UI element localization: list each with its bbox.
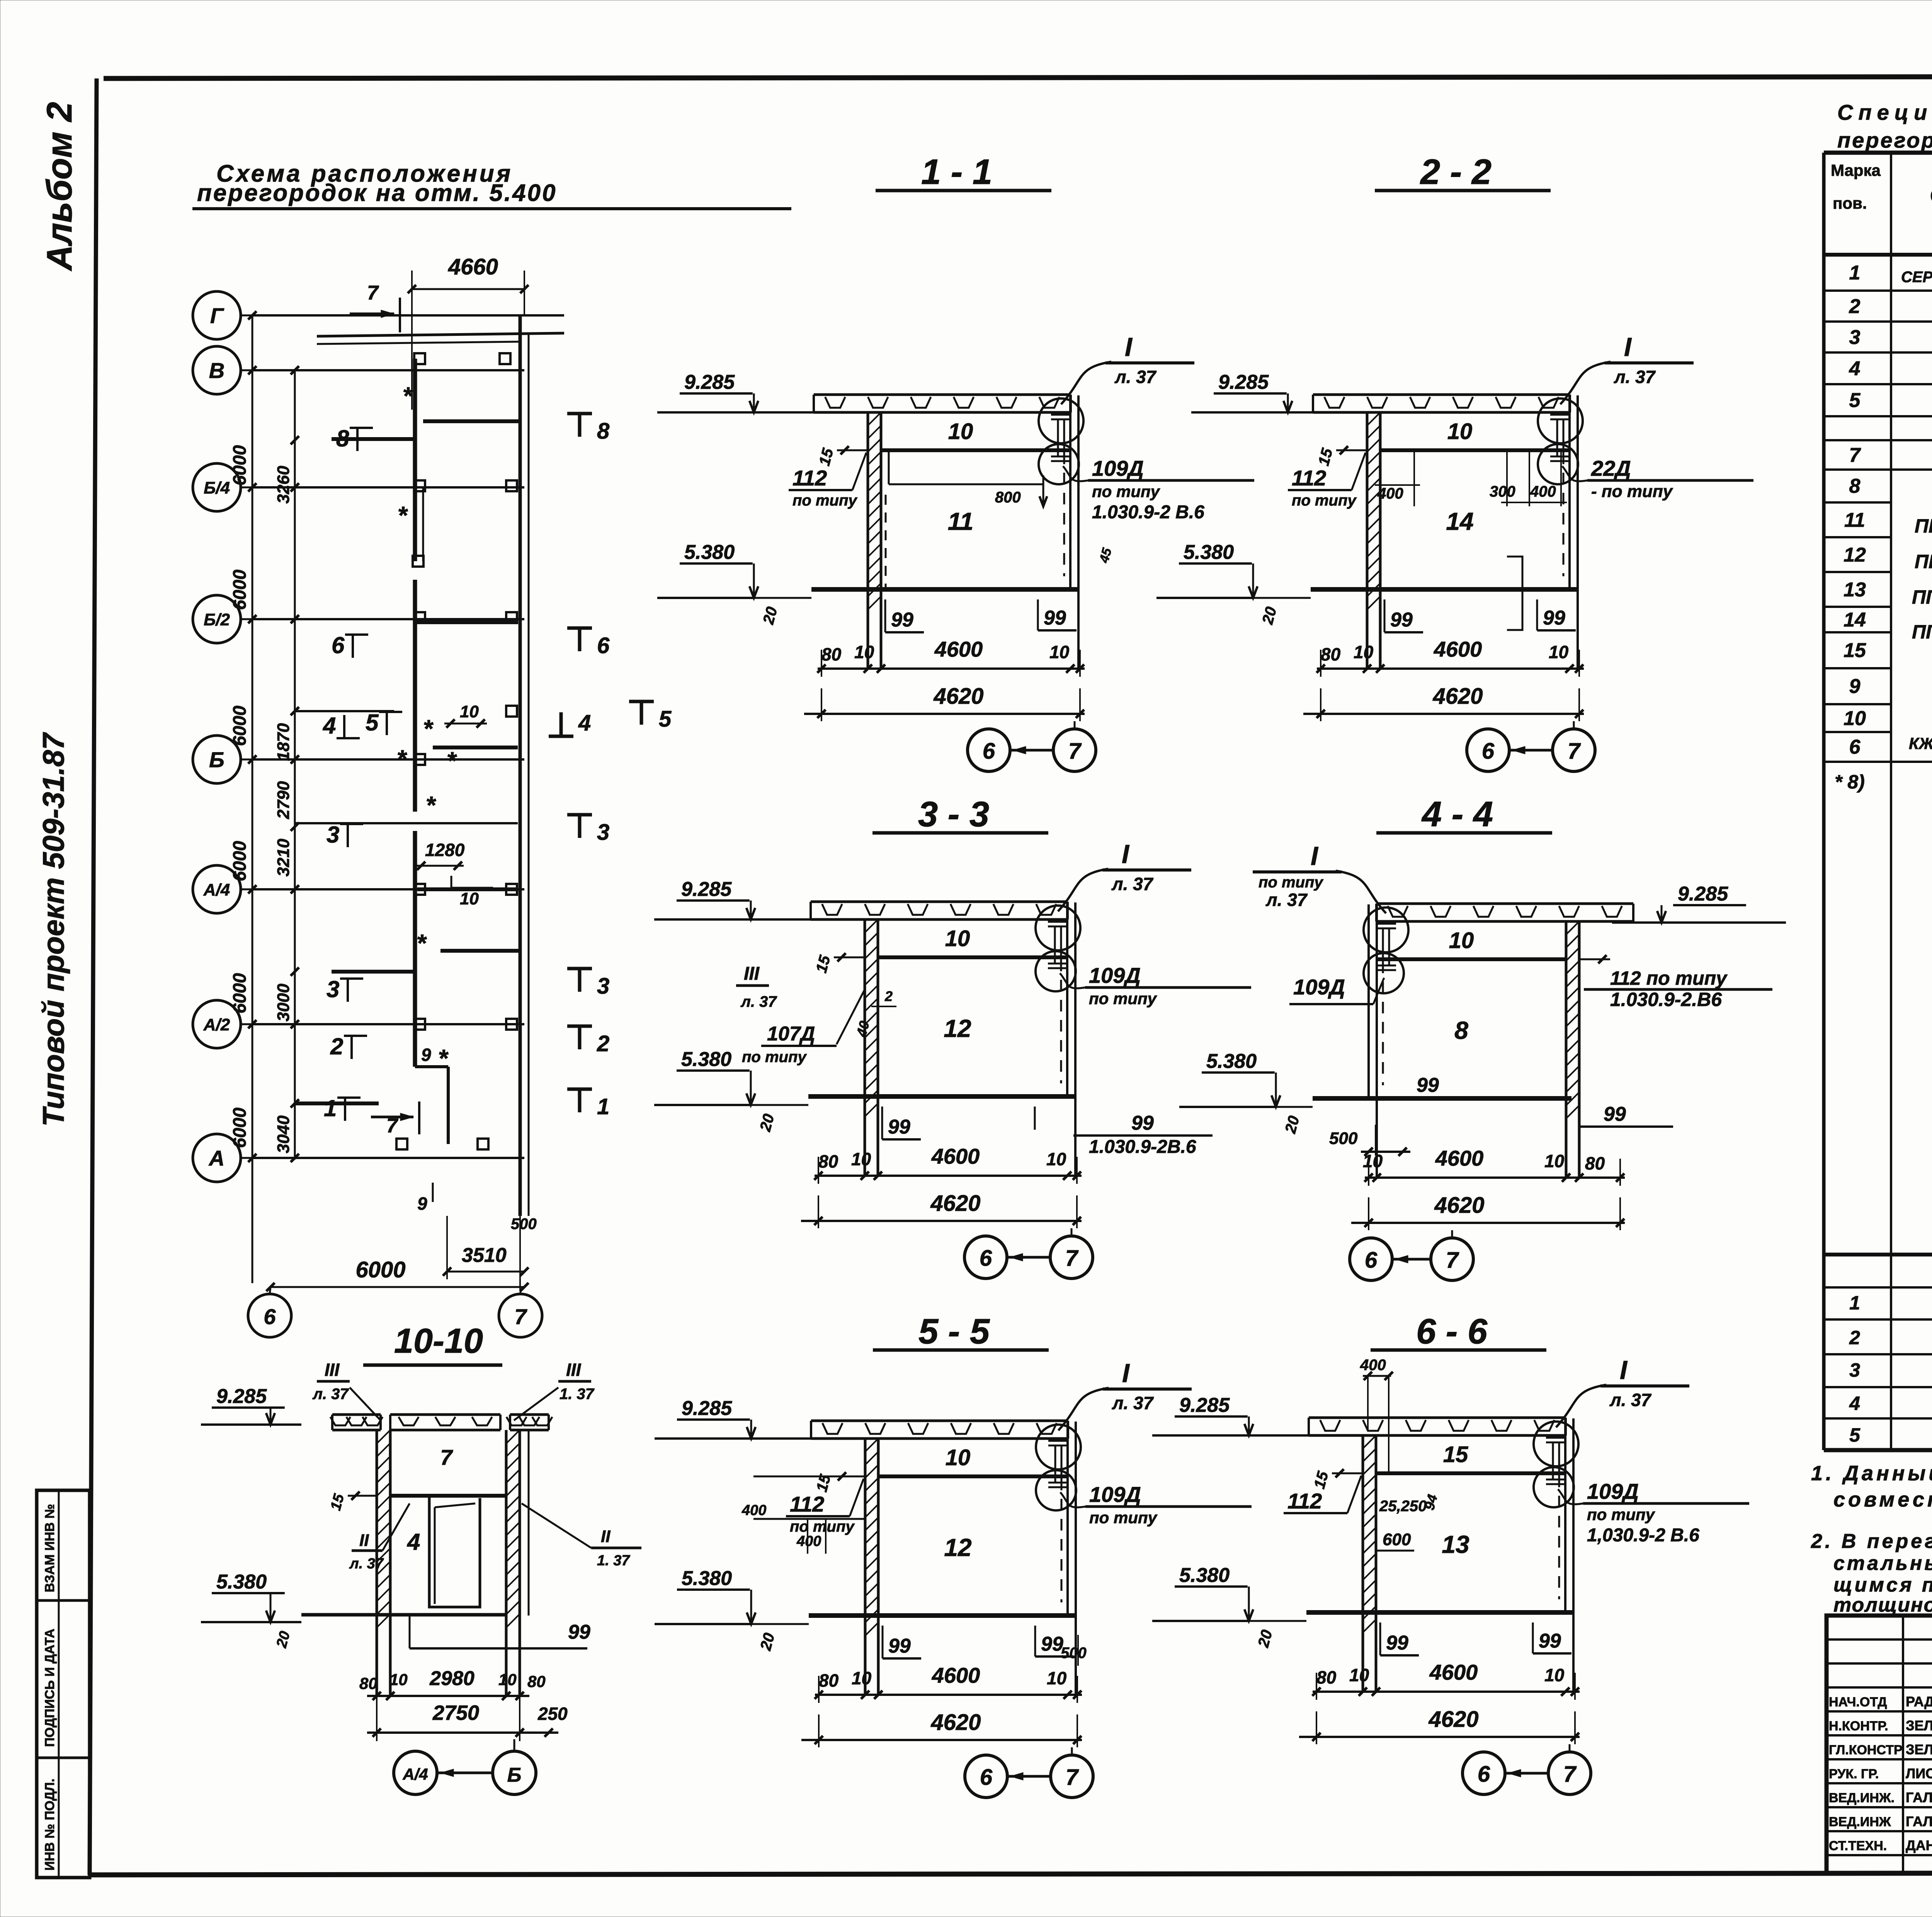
svg-text:9.285: 9.285 xyxy=(684,371,735,393)
svg-text:пов.: пов. xyxy=(1833,194,1867,212)
svg-text:8: 8 xyxy=(597,419,610,444)
svg-text:ПГ- 4, ПГ-5, ПГ-5-1,: ПГ- 4, ПГ-5, ПГ-5-1, xyxy=(1912,586,1932,608)
svg-text:6: 6 xyxy=(1849,736,1861,758)
svg-text:112: 112 xyxy=(1287,1489,1322,1513)
svg-text:10: 10 xyxy=(1844,707,1866,730)
svg-text:2. В перегородках, обозначенны: 2. В перегородках, обозначенных *, все xyxy=(1811,1530,1932,1553)
svg-text:99: 99 xyxy=(1386,1632,1408,1654)
svg-text:10: 10 xyxy=(1349,1665,1369,1685)
section cut mark 7 top xyxy=(350,282,400,332)
svg-text:III: III xyxy=(744,964,760,984)
svg-text:7: 7 xyxy=(1065,1246,1079,1271)
svg-text:5.380: 5.380 xyxy=(1179,1564,1230,1587)
plan 6000 dimension column xyxy=(229,315,252,1283)
svg-text:8: 8 xyxy=(336,426,349,451)
svg-text:8: 8 xyxy=(1454,1016,1468,1044)
svg-text:10: 10 xyxy=(1049,642,1070,662)
svg-text:12: 12 xyxy=(1844,544,1866,566)
svg-text:по типу: по типу xyxy=(1587,1505,1656,1524)
svg-text:по типу: по типу xyxy=(1089,989,1158,1008)
svg-text:9: 9 xyxy=(417,1193,427,1214)
svg-text:III: III xyxy=(566,1360,582,1380)
svg-text:2: 2 xyxy=(884,988,893,1004)
svg-text:99: 99 xyxy=(568,1621,590,1643)
svg-text:Б/4: Б/4 xyxy=(204,478,230,497)
svg-text:6: 6 xyxy=(264,1304,276,1329)
svg-text:10: 10 xyxy=(1447,419,1473,444)
svg-text:3: 3 xyxy=(597,974,609,999)
svg-text:80: 80 xyxy=(818,1151,838,1171)
plan axis circles 6 7 xyxy=(248,1287,542,1337)
section 10-10 xyxy=(201,1322,641,1794)
plan secondary dims xyxy=(274,366,299,1162)
svg-text:112: 112 xyxy=(790,1492,824,1516)
svg-text:А/4: А/4 xyxy=(402,1765,428,1783)
svg-text:4600: 4600 xyxy=(1434,637,1482,661)
svg-text:4600: 4600 xyxy=(931,1144,980,1168)
plan partition wall vertical xyxy=(415,359,423,1067)
svg-text:перегородок на отм. 5.400.: перегородок на отм. 5.400. xyxy=(1837,128,1932,152)
svg-text:10: 10 xyxy=(948,419,973,444)
svg-text:по типу: по типу xyxy=(1292,492,1357,509)
svg-text:I: I xyxy=(1620,1355,1628,1385)
plan marks 9 xyxy=(417,1045,433,1214)
section 3-3 xyxy=(654,795,1251,1279)
plan small dims 10 1280 xyxy=(415,702,493,908)
svg-text:6000: 6000 xyxy=(229,570,250,610)
svg-text:ВЗАМ ИНВ №: ВЗАМ ИНВ № xyxy=(43,1504,57,1592)
svg-text:4: 4 xyxy=(323,713,336,739)
svg-text:4620: 4620 xyxy=(1428,1707,1478,1732)
svg-text:л. 37: л. 37 xyxy=(1111,874,1154,894)
svg-text:10: 10 xyxy=(460,889,479,908)
svg-text:5.380: 5.380 xyxy=(1206,1050,1257,1073)
svg-text:9.285: 9.285 xyxy=(216,1385,267,1408)
svg-text:99: 99 xyxy=(1390,609,1413,631)
svg-text:по типу: по типу xyxy=(742,1049,807,1066)
section 5-5 xyxy=(655,1312,1252,1798)
svg-text:3: 3 xyxy=(327,976,339,1002)
svg-text:*: * xyxy=(403,382,413,410)
svg-text:4620: 4620 xyxy=(933,684,983,709)
svg-text:6: 6 xyxy=(1482,739,1495,764)
svg-text:6: 6 xyxy=(1478,1762,1490,1787)
svg-text:л. 37: л. 37 xyxy=(1114,367,1157,387)
svg-text:А/4: А/4 xyxy=(203,880,230,899)
svg-text:22Д: 22Д xyxy=(1591,456,1631,480)
svg-text:2750: 2750 xyxy=(432,1701,479,1725)
stamp boxes bottom-left xyxy=(37,1490,90,1878)
svg-text:5: 5 xyxy=(366,710,379,735)
svg-text:6 - 6: 6 - 6 xyxy=(1416,1312,1488,1351)
svg-text:ИНВ № ПОДЛ.: ИНВ № ПОДЛ. xyxy=(43,1779,57,1871)
svg-text:99: 99 xyxy=(1417,1074,1439,1096)
svg-text:7: 7 xyxy=(1849,444,1861,466)
svg-text:РУК. ГР.: РУК. ГР. xyxy=(1829,1767,1879,1781)
svg-text:80: 80 xyxy=(1316,1667,1337,1687)
svg-text:*: * xyxy=(447,747,457,775)
svg-text:по типу: по типу xyxy=(1092,482,1161,501)
svg-text:99: 99 xyxy=(891,609,913,631)
svg-text:25,250: 25,250 xyxy=(1379,1498,1427,1515)
svg-text:500: 500 xyxy=(1329,1129,1358,1148)
svg-text:ВЕД.ИНЖ: ВЕД.ИНЖ xyxy=(1829,1815,1891,1829)
svg-text:I: I xyxy=(1122,839,1130,869)
svg-text:ЛИСУНОВ: ЛИСУНОВ xyxy=(1906,1765,1932,1781)
svg-text:л. 37: л. 37 xyxy=(349,1556,384,1572)
svg-text:совместно с листом 37.: совместно с листом 37. xyxy=(1833,1488,1932,1511)
svg-text:Альбом 2: Альбом 2 xyxy=(40,102,79,271)
svg-text:4660: 4660 xyxy=(448,254,498,279)
svg-text:13: 13 xyxy=(1442,1531,1469,1558)
svg-text:112 по типу: 112 по типу xyxy=(1610,967,1728,989)
plan bottom dims xyxy=(266,1216,537,1291)
section 6-6 xyxy=(1152,1312,1749,1794)
svg-text:10: 10 xyxy=(389,1670,408,1689)
svg-text:80: 80 xyxy=(819,1670,839,1691)
svg-text:9.285: 9.285 xyxy=(1218,371,1269,393)
svg-text:ВЕД.ИНЖ.: ВЕД.ИНЖ. xyxy=(1829,1791,1895,1805)
svg-text:500: 500 xyxy=(511,1216,537,1233)
svg-text:99: 99 xyxy=(888,1635,911,1657)
svg-text:3040: 3040 xyxy=(274,1115,293,1153)
svg-text:ПГ-1 ÷ ПГ-1- 4,: ПГ-1 ÷ ПГ-1- 4, xyxy=(1915,515,1932,537)
plan stars xyxy=(397,382,457,1072)
svg-text:ЗЕЛЕНСКИЙ: ЗЕЛЕНСКИЙ xyxy=(1906,1717,1932,1733)
svg-text:Марка: Марка xyxy=(1831,161,1881,179)
svg-text:1.030.9-2 В.6: 1.030.9-2 В.6 xyxy=(1092,502,1204,523)
svg-text:10: 10 xyxy=(946,1445,971,1470)
svg-text:80: 80 xyxy=(1585,1153,1605,1173)
svg-text:7: 7 xyxy=(1068,739,1082,764)
svg-text:107Д: 107Д xyxy=(767,1023,815,1045)
svg-text:7: 7 xyxy=(514,1304,527,1329)
svg-text:щимся покрытием ВПМ-2 (ГОСТ: щимся покрытием ВПМ-2 (ГОСТ 25131-82) xyxy=(1833,1574,1932,1596)
svg-text:99: 99 xyxy=(1539,1630,1561,1652)
svg-text:400: 400 xyxy=(1530,483,1556,500)
svg-text:9: 9 xyxy=(1849,675,1861,698)
svg-text:4620: 4620 xyxy=(930,1191,980,1216)
svg-text:4620: 4620 xyxy=(1432,684,1483,709)
svg-text:6000: 6000 xyxy=(355,1257,405,1282)
svg-text:Г: Г xyxy=(210,303,224,328)
svg-text:Б: Б xyxy=(507,1764,522,1786)
svg-text:9.285: 9.285 xyxy=(1179,1394,1230,1416)
svg-text:1: 1 xyxy=(324,1095,337,1121)
svg-text:1: 1 xyxy=(1849,1292,1860,1314)
svg-text:2: 2 xyxy=(597,1031,609,1056)
svg-text:11: 11 xyxy=(948,507,973,535)
svg-text:400: 400 xyxy=(1377,485,1403,502)
svg-text:4: 4 xyxy=(1849,358,1861,380)
svg-text:6: 6 xyxy=(332,632,345,658)
svg-text:10: 10 xyxy=(1354,642,1374,662)
svg-text:4: 4 xyxy=(578,710,591,735)
svg-text:Типовой проект 509-31.87: Типовой проект 509-31.87 xyxy=(36,732,70,1127)
svg-text:*: * xyxy=(423,715,434,742)
svg-text:ГАЛАКТИОНОВА: ГАЛАКТИОНОВА xyxy=(1906,1813,1932,1829)
svg-text:5.380: 5.380 xyxy=(684,541,735,564)
svg-text:1. Данный лист рассматривать: 1. Данный лист рассматривать xyxy=(1811,1462,1932,1485)
svg-text:ДАНИЛОВА: ДАНИЛОВА xyxy=(1906,1837,1932,1853)
svg-text:99: 99 xyxy=(1543,607,1565,629)
svg-text:ГЛ.КОНСТР: ГЛ.КОНСТР xyxy=(1829,1743,1903,1757)
svg-text:КЖИ-: КЖИ- xyxy=(1909,734,1932,752)
svg-text:2: 2 xyxy=(330,1033,343,1059)
margin text project number xyxy=(36,732,70,1127)
svg-text:*: * xyxy=(398,501,408,529)
svg-text:1870: 1870 xyxy=(274,723,293,761)
svg-text:2980: 2980 xyxy=(429,1667,474,1690)
svg-text:6000: 6000 xyxy=(229,841,250,882)
svg-text:ПОДПИСЬ И ДАТА: ПОДПИСЬ И ДАТА xyxy=(43,1629,57,1747)
svg-text:л. 37: л. 37 xyxy=(1112,1393,1154,1413)
svg-text:4620: 4620 xyxy=(1434,1193,1484,1218)
plan top wall xyxy=(317,333,564,344)
svg-text:ПГ-3 ÷ ПГ-3-4,: ПГ-3 ÷ ПГ-3-4, xyxy=(1915,551,1932,572)
plan column squares xyxy=(396,353,517,1149)
svg-text:А/2: А/2 xyxy=(203,1015,230,1034)
svg-text:112: 112 xyxy=(1292,466,1326,490)
spec table data xyxy=(1835,262,1932,1446)
spec table heading text xyxy=(1837,100,1932,152)
notes text xyxy=(1811,1462,1932,1616)
svg-text:5 - 5: 5 - 5 xyxy=(918,1312,990,1351)
svg-text:109Д: 109Д xyxy=(1587,1479,1639,1503)
svg-text:СЕРИЯ 1.030.9 -2 вып.1: СЕРИЯ 1.030.9 -2 вып.1 xyxy=(1901,269,1932,286)
svg-text:9.285: 9.285 xyxy=(682,1397,732,1420)
svg-text:80: 80 xyxy=(359,1674,378,1692)
svg-text:6: 6 xyxy=(597,633,610,658)
svg-text:1. 37: 1. 37 xyxy=(560,1386,595,1403)
svg-text:7: 7 xyxy=(1563,1762,1577,1787)
svg-text:III: III xyxy=(325,1360,340,1380)
svg-text:толщиной - 4 мм.: толщиной - 4 мм. xyxy=(1833,1594,1932,1616)
svg-text:ГАЛАКТИОНОВА: ГАЛАКТИОНОВА xyxy=(1906,1789,1932,1805)
svg-text:6000: 6000 xyxy=(229,445,250,486)
svg-text:4600: 4600 xyxy=(1435,1146,1484,1170)
svg-text:109Д: 109Д xyxy=(1089,963,1141,987)
svg-text:10: 10 xyxy=(851,1149,871,1169)
svg-text:109Д: 109Д xyxy=(1092,456,1144,480)
svg-text:4600: 4600 xyxy=(934,637,983,661)
svg-text:*: * xyxy=(426,791,437,819)
svg-text:6: 6 xyxy=(980,1246,992,1271)
svg-text:8: 8 xyxy=(1849,475,1861,497)
svg-text:99: 99 xyxy=(1044,607,1066,629)
svg-text:6000: 6000 xyxy=(229,706,250,746)
svg-text:10-10: 10-10 xyxy=(394,1322,483,1360)
svg-text:1.030.9-2.В6: 1.030.9-2.В6 xyxy=(1610,989,1722,1010)
section 4-4 xyxy=(1179,795,1786,1280)
svg-text:3210: 3210 xyxy=(274,839,293,877)
svg-text:1: 1 xyxy=(1849,262,1861,284)
svg-text:9: 9 xyxy=(421,1045,431,1065)
svg-text:1280: 1280 xyxy=(425,840,465,860)
svg-text:I: I xyxy=(1311,841,1319,871)
svg-text:99: 99 xyxy=(1604,1103,1626,1125)
svg-text:А: А xyxy=(208,1146,224,1170)
svg-text:I: I xyxy=(1125,332,1133,362)
svg-text:1: 1 xyxy=(597,1094,609,1119)
svg-text:99: 99 xyxy=(1041,1633,1063,1655)
plan partitions xyxy=(295,421,520,1144)
svg-text:л. 37: л. 37 xyxy=(1614,367,1656,387)
svg-text:500: 500 xyxy=(1061,1645,1087,1662)
svg-text:5: 5 xyxy=(1849,389,1861,412)
svg-text:7: 7 xyxy=(1446,1248,1459,1273)
svg-text:3510: 3510 xyxy=(462,1244,507,1267)
svg-text:99: 99 xyxy=(888,1116,910,1138)
svg-text:10: 10 xyxy=(945,926,970,951)
svg-text:7: 7 xyxy=(1066,1765,1079,1790)
svg-text:600: 600 xyxy=(1383,1530,1411,1549)
svg-text:5.380: 5.380 xyxy=(682,1567,732,1590)
svg-text:80: 80 xyxy=(1321,644,1341,664)
svg-text:5: 5 xyxy=(1849,1424,1861,1446)
svg-text:7: 7 xyxy=(1568,739,1581,764)
svg-text:2 - 2: 2 - 2 xyxy=(1420,152,1492,192)
svg-text:II: II xyxy=(601,1527,611,1546)
svg-text:80: 80 xyxy=(527,1672,546,1691)
svg-text:Обозначение: Обозначение xyxy=(1930,185,1932,208)
svg-text:Б/2: Б/2 xyxy=(204,610,230,629)
svg-text:3: 3 xyxy=(327,822,339,848)
svg-text:300: 300 xyxy=(1490,483,1515,500)
svg-text:по типу: по типу xyxy=(790,1518,855,1535)
svg-text:14: 14 xyxy=(1446,507,1473,535)
plan grid circles and lines xyxy=(193,291,564,1182)
svg-text:6: 6 xyxy=(1365,1248,1378,1273)
svg-text:* 8): * 8) xyxy=(1835,771,1865,793)
svg-text:1,030.9-2 В.6: 1,030.9-2 В.6 xyxy=(1587,1525,1699,1546)
svg-text:6000: 6000 xyxy=(229,973,250,1014)
plan type marks right side xyxy=(549,414,672,1119)
svg-text:5.380: 5.380 xyxy=(681,1048,731,1071)
svg-text:1 - 1: 1 - 1 xyxy=(921,152,992,192)
svg-text:4: 4 xyxy=(1849,1393,1860,1414)
svg-text:13: 13 xyxy=(1844,579,1866,601)
section cut mark 7 bottom xyxy=(371,1102,419,1137)
svg-text:10: 10 xyxy=(1047,1668,1067,1688)
svg-text:4620: 4620 xyxy=(930,1710,981,1735)
svg-text:7: 7 xyxy=(440,1445,453,1469)
svg-text:10: 10 xyxy=(498,1670,517,1689)
svg-text:15: 15 xyxy=(1443,1442,1468,1467)
svg-text:10: 10 xyxy=(1046,1149,1066,1169)
svg-text:2: 2 xyxy=(1849,1327,1860,1348)
svg-text:л. 37: л. 37 xyxy=(1265,890,1308,910)
svg-text:РАДЬКО: РАДЬКО xyxy=(1906,1694,1932,1709)
spec table headers xyxy=(1831,157,1932,245)
svg-text:*: * xyxy=(397,745,408,773)
svg-text:по типу: по типу xyxy=(1259,874,1323,891)
svg-text:10: 10 xyxy=(1544,1665,1565,1685)
svg-text:5: 5 xyxy=(659,707,672,732)
title block xyxy=(1827,1616,1932,1873)
margin text Album 2 xyxy=(40,102,79,271)
svg-text:5.380: 5.380 xyxy=(1184,541,1234,564)
svg-text:II: II xyxy=(359,1531,369,1550)
svg-text:5.380: 5.380 xyxy=(216,1571,267,1593)
svg-text:- по типу: - по типу xyxy=(1591,482,1673,501)
svg-text:12: 12 xyxy=(944,1534,971,1561)
svg-text:10: 10 xyxy=(460,702,479,721)
svg-text:3000: 3000 xyxy=(274,984,293,1021)
svg-text:1.030.9-2В.6: 1.030.9-2В.6 xyxy=(1089,1137,1196,1157)
svg-text:10: 10 xyxy=(852,1668,872,1688)
svg-text:л. 37: л. 37 xyxy=(1609,1390,1652,1410)
svg-text:400: 400 xyxy=(742,1502,766,1519)
svg-text:3 - 3: 3 - 3 xyxy=(918,795,989,834)
svg-text:80: 80 xyxy=(821,644,842,664)
svg-text:7: 7 xyxy=(367,282,379,304)
svg-text:3: 3 xyxy=(1849,1359,1860,1381)
svg-text:ЗЕЛЕНСКИЙ: ЗЕЛЕНСКИЙ xyxy=(1906,1741,1932,1757)
svg-text:3: 3 xyxy=(597,820,609,845)
svg-text:10: 10 xyxy=(1449,928,1474,953)
svg-text:I: I xyxy=(1122,1359,1130,1388)
svg-text:стальные злементы покрыть в: стальные злементы покрыть вспучиваю- xyxy=(1833,1552,1932,1575)
svg-text:*: * xyxy=(417,929,427,957)
svg-text:800: 800 xyxy=(995,489,1021,506)
svg-text:л. 37: л. 37 xyxy=(312,1386,349,1403)
svg-text:В: В xyxy=(209,358,224,383)
svg-text:4600: 4600 xyxy=(932,1663,980,1687)
svg-text:109Д: 109Д xyxy=(1089,1482,1141,1507)
svg-text:10: 10 xyxy=(1544,1151,1565,1171)
svg-text:250: 250 xyxy=(537,1704,568,1724)
section 2-2 xyxy=(1156,152,1753,771)
svg-text:10: 10 xyxy=(854,642,874,662)
svg-text:11: 11 xyxy=(1844,509,1865,531)
svg-text:99: 99 xyxy=(1131,1112,1154,1134)
svg-text:*: * xyxy=(438,1044,449,1072)
svg-text:3: 3 xyxy=(1849,326,1861,349)
svg-text:НАЧ.ОТД: НАЧ.ОТД xyxy=(1829,1695,1887,1709)
svg-text:2: 2 xyxy=(1849,295,1861,318)
svg-text:6: 6 xyxy=(983,739,995,764)
svg-text:ПГ- 6, ПГ-8, ПГ-10.: ПГ- 6, ПГ-8, ПГ-10. xyxy=(1912,621,1932,643)
svg-text:4600: 4600 xyxy=(1429,1660,1478,1684)
spec table grid xyxy=(1824,153,1932,1450)
svg-text:109Д: 109Д xyxy=(1293,975,1345,999)
svg-text:9.285: 9.285 xyxy=(681,878,732,901)
svg-text:112: 112 xyxy=(793,466,827,490)
svg-text:4 - 4: 4 - 4 xyxy=(1421,795,1493,834)
svg-text:Б: Б xyxy=(209,747,224,772)
plan room numbers xyxy=(323,426,402,1121)
drawing title xyxy=(192,160,791,209)
svg-text:л. 37: л. 37 xyxy=(740,993,777,1010)
svg-text:I: I xyxy=(1624,332,1632,362)
svg-text:Н.КОНТР.: Н.КОНТР. xyxy=(1829,1719,1888,1733)
section 1-1 xyxy=(657,152,1254,771)
svg-text:6: 6 xyxy=(980,1765,993,1790)
svg-text:400: 400 xyxy=(1360,1357,1386,1374)
svg-text:по типу: по типу xyxy=(1089,1508,1158,1527)
svg-text:перегородок на отм. 5.400: перегородок на отм. 5.400 xyxy=(197,180,557,206)
plan dim 4660 xyxy=(408,254,529,410)
svg-text:9.285: 9.285 xyxy=(1678,883,1728,905)
svg-text:400: 400 xyxy=(796,1533,821,1549)
plan right wall xyxy=(520,315,529,1216)
svg-text:3260: 3260 xyxy=(274,466,293,504)
svg-text:2790: 2790 xyxy=(274,781,293,819)
svg-text:10: 10 xyxy=(1549,642,1569,662)
svg-text:по типу: по типу xyxy=(793,492,857,509)
svg-text:СТ.ТЕХН.: СТ.ТЕХН. xyxy=(1829,1839,1887,1853)
